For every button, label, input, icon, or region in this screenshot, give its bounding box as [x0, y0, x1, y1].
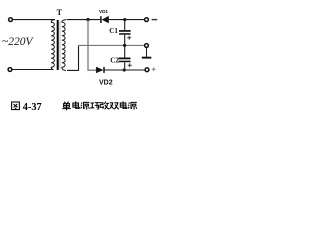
char 图: [12, 102, 20, 110]
svg-text:C1: C1: [109, 27, 118, 35]
capacitor C1: [119, 20, 131, 46]
char 电 (2): [120, 101, 126, 108]
char 源 (2): [128, 102, 137, 109]
svg-text:T: T: [57, 8, 63, 17]
wire, VD1 anode to negative output terminal: [109, 19, 145, 21]
node junction at hot end feed: [86, 18, 89, 21]
terminal, common output: [145, 44, 149, 48]
svg-text:VD2: VD2: [99, 80, 113, 87]
wire, secondary hot end to VD1: [67, 19, 100, 21]
char 巧: [90, 103, 100, 110]
capacitor C2: [119, 45, 131, 70]
label minus: [152, 19, 158, 20]
transformer T core: [58, 20, 60, 70]
diode VD2 (cathode right): [96, 67, 104, 73]
wire, vertical feed from hot node down to VD2 branch: [88, 20, 96, 71]
diode VD1 (cathode left): [101, 16, 109, 23]
transformer T secondary winding: [62, 20, 67, 71]
node junction C2 bottom: [123, 68, 126, 71]
terminal, AC input top-left: [9, 18, 13, 22]
wire, AC bottom lead to transformer primary: [12, 69, 53, 71]
wire, common ground rail: [79, 44, 145, 46]
char 改: [100, 102, 109, 110]
char 源: [81, 102, 90, 109]
node junction C1 bottom on ground rail: [123, 44, 126, 47]
char 单: [62, 102, 71, 111]
label C2 plus: [128, 63, 132, 67]
ground symbol: [142, 48, 152, 59]
transformer T primary winding: [51, 20, 55, 70]
wire, VD2 cathode to positive output terminal: [104, 69, 145, 71]
caption: 图 4-37 单电源巧改双电源: [12, 102, 20, 110]
char 双: [110, 103, 119, 109]
terminal, negative output: [145, 18, 149, 22]
wire, secondary cold end up to common rail: [67, 45, 79, 70]
terminal, positive output: [145, 68, 149, 72]
label C1 plus: [127, 36, 131, 40]
svg-text:VD1: VD1: [99, 9, 108, 14]
svg-text:C2: C2: [110, 57, 119, 65]
svg-text:~220V: ~220V: [2, 36, 34, 48]
label plus (faint): [152, 67, 156, 71]
svg-text:4-37: 4-37: [23, 102, 42, 113]
terminal, AC input bottom-left: [8, 68, 12, 72]
char 电: [73, 101, 79, 108]
node junction C1 top: [123, 18, 126, 21]
wire, AC top lead to transformer primary: [13, 19, 55, 21]
